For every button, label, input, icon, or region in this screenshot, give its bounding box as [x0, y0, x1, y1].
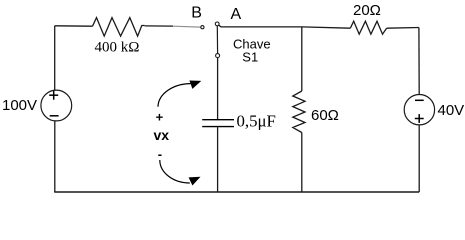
value label 60Ω: [311, 107, 339, 124]
svg-text:-: -: [158, 147, 162, 162]
node A terminal circle (switch pivot): [215, 22, 219, 26]
wire 60Ω to bottom: [301, 133, 303, 193]
svg-text:100V: 100V: [2, 97, 37, 114]
switch S1 arm: [216, 26, 218, 54]
voltage source 40V plus sign: [415, 114, 424, 123]
wire right branch upper: [418, 28, 420, 95]
capacitor 0,5μF plates: [202, 120, 234, 127]
wire left branch lower: [54, 121, 56, 192]
voltage source 40V circle: [404, 95, 434, 125]
wire left branch upper: [54, 26, 56, 90]
svg-text:0,5μF: 0,5μF: [237, 112, 276, 131]
vx lower arc arrow: [160, 160, 201, 186]
svg-text:B: B: [191, 5, 202, 22]
voltage source 100V plus sign: [49, 91, 58, 100]
wire top from node A to 20Ω resistor: [219, 25, 351, 28]
svg-text:20Ω: 20Ω: [353, 2, 381, 19]
svg-text:60Ω: 60Ω: [311, 107, 339, 124]
svg-text:A: A: [231, 6, 242, 23]
svg-text:+: +: [156, 110, 164, 125]
svg-text:400 kΩ: 400 kΩ: [95, 40, 140, 56]
value label 0,5μF: [237, 112, 276, 131]
vx minus sign label: [158, 147, 162, 162]
resistor 20Ω: [350, 21, 386, 34]
switch S1 lower terminal circle: [216, 54, 220, 58]
voltage source 100V circle: [41, 90, 72, 121]
vx upper arc arrow: [158, 81, 201, 107]
switch S1 label: [233, 36, 271, 64]
wire 20Ω resistor to top-right corner: [387, 27, 419, 30]
svg-text:vx: vx: [154, 127, 170, 143]
node B terminal circle: [201, 26, 204, 29]
voltage source 100V minus sign: [50, 115, 59, 117]
svg-text:40V: 40V: [438, 102, 465, 119]
wire resistor to switch terminal B: [145, 26, 201, 27]
node A label: [231, 6, 242, 23]
resistor 60Ω: [293, 91, 305, 133]
value label 100V: [2, 97, 37, 114]
wire middle branch upper (to 60Ω): [301, 27, 303, 91]
value label 400 kΩ: [95, 40, 140, 56]
value label 20Ω: [353, 2, 381, 19]
vx plus sign label: [156, 110, 164, 125]
voltage source 40V minus sign: [415, 99, 424, 101]
value label 40V: [438, 102, 465, 119]
wire switch to capacitor: [217, 58, 219, 119]
svg-text:S1: S1: [242, 50, 258, 65]
wire capacitor to bottom: [217, 127, 219, 192]
wire top-left segment: [55, 25, 93, 27]
node B label: [191, 5, 202, 22]
resistor 400 kΩ: [93, 18, 145, 36]
wire right branch lower: [418, 125, 420, 192]
wire bottom: [54, 191, 419, 193]
vx label: [154, 127, 170, 143]
